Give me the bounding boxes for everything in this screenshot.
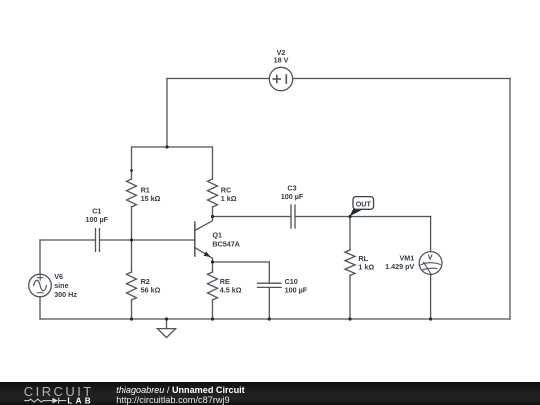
svg-text:OUT: OUT xyxy=(356,200,372,209)
svg-text:4.5 kΩ: 4.5 kΩ xyxy=(220,286,242,295)
svg-text:LAB: LAB xyxy=(67,397,93,405)
svg-text:1 kΩ: 1 kΩ xyxy=(221,194,237,203)
svg-text:1.429 pV: 1.429 pV xyxy=(385,262,414,271)
svg-text:15 kΩ: 15 kΩ xyxy=(141,194,161,203)
svg-text:V: V xyxy=(428,253,433,262)
svg-text:Q1: Q1 xyxy=(212,231,222,240)
svg-text:1 kΩ: 1 kΩ xyxy=(358,262,374,271)
svg-text:56 kΩ: 56 kΩ xyxy=(141,286,161,295)
svg-text:100 µF: 100 µF xyxy=(281,192,304,201)
svg-text:100 µF: 100 µF xyxy=(86,215,109,224)
svg-text:V6: V6 xyxy=(54,272,63,281)
svg-text:http://circuitlab.com/c87rwj9: http://circuitlab.com/c87rwj9 xyxy=(116,395,229,405)
svg-text:18 V: 18 V xyxy=(274,56,289,65)
svg-text:thiagoabreu / Unnamed Circuit: thiagoabreu / Unnamed Circuit xyxy=(116,385,244,395)
svg-text:sine: sine xyxy=(54,281,68,290)
svg-text:BC547A: BC547A xyxy=(212,239,240,248)
svg-text:300 Hz: 300 Hz xyxy=(54,290,77,299)
svg-text:100 µF: 100 µF xyxy=(285,286,308,295)
